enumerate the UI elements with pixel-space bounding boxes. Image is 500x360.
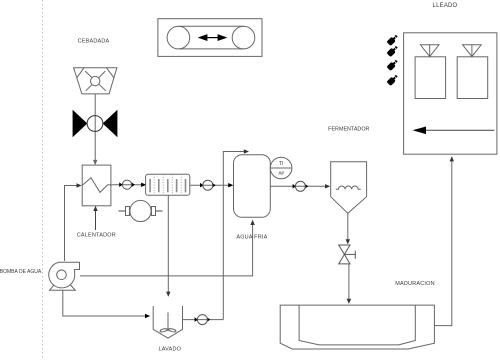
conveyor arrow inside filling box: [424, 129, 495, 131]
svg-text:CEBADADA: CEBADADA: [78, 39, 110, 45]
svg-text:AGUA FRIA: AGUA FRIA: [236, 234, 267, 240]
wire heater to filter: [111, 184, 144, 186]
cold water tank AGUA FRIA: [234, 155, 271, 218]
svg-text:##: ##: [278, 171, 284, 177]
svg-text:BOMBA DE AGUA: BOMBA DE AGUA: [0, 269, 42, 275]
heater zigzag element: [82, 178, 111, 193]
wire lavado to riser: [183, 319, 224, 321]
svg-text:LAVADO: LAVADO: [158, 347, 181, 353]
water pump body: [49, 262, 80, 288]
lavado vessel: [153, 306, 182, 338]
inline pump symbol 4: [195, 315, 211, 325]
inline pump symbol 3: [293, 181, 309, 191]
filling area box: [404, 33, 497, 154]
bottle 2: [386, 45, 399, 58]
ball valve: [73, 110, 118, 138]
conveyor double arrow: [200, 35, 226, 40]
heater CALENTADOR box: [82, 165, 111, 206]
wire pump to heater left: [65, 186, 81, 262]
filling machine 2: [457, 45, 488, 99]
conveyor belt symbol: [158, 19, 262, 57]
steam stub arrow into heater bottom: [95, 208, 97, 231]
inline pump symbol 1: [119, 180, 135, 189]
fermenter coil: [336, 186, 361, 189]
instrument TI circle: [270, 157, 292, 179]
filter F1: [146, 174, 190, 195]
wire tank to fermenter: [270, 185, 328, 187]
svg-text:MADURACION: MADURACION: [395, 281, 435, 287]
wire filter bottom to lavado: [167, 195, 169, 295]
bottle 1: [386, 34, 399, 47]
wire lavado loop riser to tank top: [223, 152, 247, 320]
fermenter vessel: [331, 162, 367, 214]
svg-text:TI: TI: [279, 161, 283, 167]
maduracion tank outer shell: [280, 305, 434, 349]
wire pump outlet to tank bottom: [80, 222, 253, 276]
lavado agitator: [160, 312, 176, 332]
wire valve to maduracion: [348, 264, 350, 302]
crusher hopper: [74, 68, 117, 94]
motor M1: [119, 200, 163, 221]
svg-text:LLEADO: LLEADO: [433, 3, 458, 9]
maduracion tank inner wall: [299, 305, 415, 345]
pump base: [50, 283, 76, 290]
filling machine 1: [415, 45, 446, 99]
bottle 4: [386, 74, 399, 87]
svg-text:CALENTADOR: CALENTADOR: [77, 232, 116, 238]
svg-text:FERMENTADOR: FERMENTADOR: [328, 127, 369, 133]
pump impeller circle: [57, 270, 67, 280]
wire crusher to heater: [94, 94, 96, 164]
drain valve: [339, 245, 356, 264]
wire pump bottom to lavado: [63, 290, 149, 316]
wire fermenter to valve: [347, 213, 349, 243]
inline pump symbol 2: [200, 180, 216, 190]
page fold dotted line: [42, 0, 44, 360]
wire filter to cold water tank: [190, 184, 232, 186]
wire maduracion to filling box: [434, 158, 451, 326]
bottle 3: [386, 59, 399, 72]
